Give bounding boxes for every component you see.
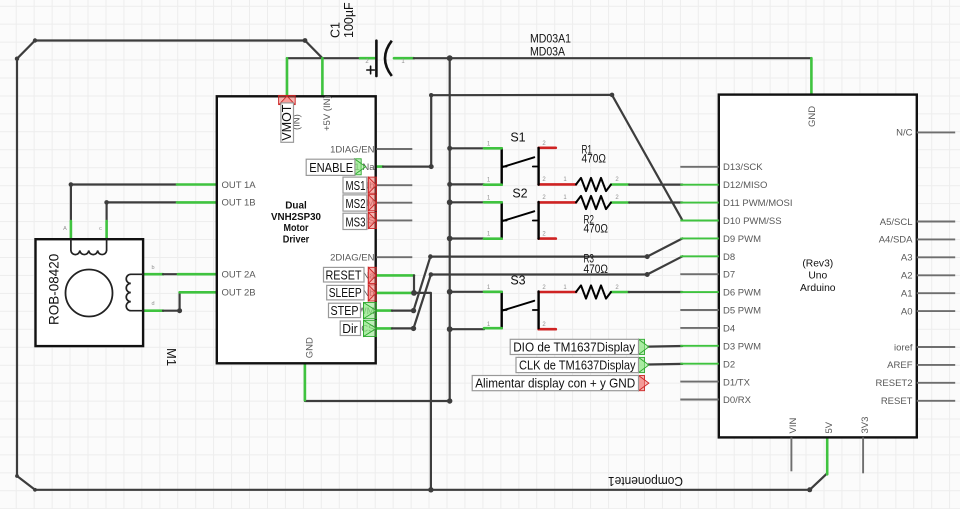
svg-text:N/C: N/C bbox=[896, 128, 913, 139]
svg-text:D9 PWM: D9 PWM bbox=[723, 234, 761, 245]
svg-text:D8: D8 bbox=[723, 252, 735, 263]
svg-text:D1/TX: D1/TX bbox=[723, 377, 751, 388]
svg-text:A2: A2 bbox=[901, 271, 913, 282]
svg-text:470Ω: 470Ω bbox=[584, 222, 609, 236]
svg-text:470Ω: 470Ω bbox=[582, 152, 607, 166]
svg-text:VMOT: VMOT bbox=[280, 104, 294, 140]
svg-text:D3 PWM: D3 PWM bbox=[723, 341, 761, 352]
svg-text:D2: D2 bbox=[723, 359, 735, 370]
svg-text:ROB-08420: ROB-08420 bbox=[47, 254, 62, 325]
svg-text:A1: A1 bbox=[901, 289, 913, 300]
svg-text:A0: A0 bbox=[901, 306, 913, 317]
svg-text:c: c bbox=[99, 226, 102, 232]
svg-text:3V3: 3V3 bbox=[860, 417, 871, 434]
svg-text:1DIAG/EN: 1DIAG/EN bbox=[330, 144, 374, 155]
svg-text:D13/SCK: D13/SCK bbox=[723, 162, 763, 173]
svg-text:A: A bbox=[63, 226, 67, 232]
svg-text:ioref: ioref bbox=[894, 342, 913, 353]
svg-text:Dir: Dir bbox=[342, 321, 358, 336]
svg-text:C1: C1 bbox=[329, 22, 343, 38]
svg-text:D10 PWM/SS: D10 PWM/SS bbox=[723, 216, 782, 227]
svg-text:D11 PWM/MOSI: D11 PWM/MOSI bbox=[723, 198, 793, 209]
svg-text:b: b bbox=[151, 265, 154, 271]
svg-text:MS2: MS2 bbox=[346, 197, 366, 211]
svg-text:Uno: Uno bbox=[808, 271, 827, 282]
svg-text:ENABLE: ENABLE bbox=[309, 160, 353, 175]
svg-text:MS3: MS3 bbox=[346, 216, 366, 230]
svg-text:D0/RX: D0/RX bbox=[723, 395, 752, 406]
svg-text:2DIAG/EN: 2DIAG/EN bbox=[330, 253, 374, 264]
svg-text:CLK de TM1637Display: CLK de TM1637Display bbox=[519, 358, 636, 373]
svg-text:S2: S2 bbox=[512, 187, 527, 201]
svg-text:MD03A: MD03A bbox=[530, 45, 566, 59]
svg-text:STEP: STEP bbox=[331, 304, 359, 318]
svg-text:SLEEP: SLEEP bbox=[329, 286, 362, 300]
svg-text:Arduino: Arduino bbox=[800, 283, 836, 294]
svg-text:S3: S3 bbox=[510, 274, 525, 288]
svg-text:VIN: VIN bbox=[788, 418, 799, 434]
svg-text:OUT 2B: OUT 2B bbox=[222, 288, 256, 299]
svg-text:A4/SDA: A4/SDA bbox=[879, 235, 913, 246]
svg-text:Dual: Dual bbox=[285, 200, 307, 212]
svg-text:5V: 5V bbox=[824, 421, 835, 433]
svg-text:MS1: MS1 bbox=[346, 179, 366, 193]
svg-text:OUT 2A: OUT 2A bbox=[222, 269, 257, 280]
svg-text:RESET: RESET bbox=[881, 396, 913, 407]
svg-text:D7: D7 bbox=[723, 270, 735, 281]
svg-text:A5/SCL: A5/SCL bbox=[880, 217, 913, 228]
svg-text:M1: M1 bbox=[164, 348, 179, 366]
svg-text:D12/MISO: D12/MISO bbox=[723, 180, 767, 191]
svg-text:S1: S1 bbox=[510, 130, 525, 144]
svg-text:(Rev3): (Rev3) bbox=[802, 258, 833, 269]
svg-text:GND: GND bbox=[807, 106, 818, 127]
svg-text:D4: D4 bbox=[723, 323, 735, 334]
svg-text:RESET2: RESET2 bbox=[876, 378, 913, 389]
svg-text:Motor: Motor bbox=[284, 222, 309, 234]
svg-text:470Ω: 470Ω bbox=[584, 262, 609, 276]
svg-text:RESET: RESET bbox=[326, 268, 362, 282]
svg-text:A3: A3 bbox=[901, 253, 913, 264]
svg-text:AREF: AREF bbox=[887, 360, 913, 371]
svg-text:D5 PWM: D5 PWM bbox=[723, 306, 761, 317]
svg-text:OUT 1A: OUT 1A bbox=[222, 180, 257, 191]
svg-text:GND: GND bbox=[305, 337, 316, 358]
svg-text:Componente1: Componente1 bbox=[608, 474, 683, 489]
svg-text:100µF: 100µF bbox=[342, 2, 356, 38]
svg-text:Driver: Driver bbox=[283, 233, 310, 245]
svg-text:d: d bbox=[151, 301, 154, 307]
svg-text:+5V (IN): +5V (IN) bbox=[322, 95, 333, 131]
svg-text:DIO de TM1637Display: DIO de TM1637Display bbox=[513, 340, 635, 355]
svg-text:OUT 1B: OUT 1B bbox=[222, 198, 256, 209]
svg-text:VNH2SP30: VNH2SP30 bbox=[271, 211, 321, 223]
svg-text:Alimentar display con + y GND: Alimentar display con + y GND bbox=[475, 376, 635, 391]
svg-text:MD03A1: MD03A1 bbox=[530, 32, 571, 46]
svg-text:D6 PWM: D6 PWM bbox=[723, 288, 761, 299]
